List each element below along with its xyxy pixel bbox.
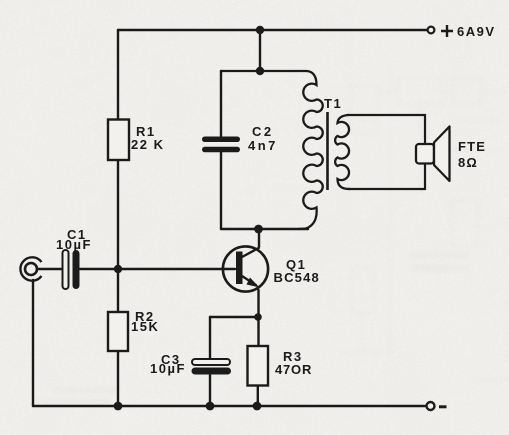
svg-text:47OR: 47OR: [275, 362, 312, 377]
node tank top junction: [256, 67, 264, 75]
wire secondary top to speaker: [347, 115, 425, 144]
capacitor C2: [202, 124, 278, 153]
wire ground bottom rail: [33, 405, 426, 407]
wire C3 branch lower: [209, 375, 211, 406]
capacitor C1: [56, 227, 92, 289]
svg-text:10µF: 10µF: [150, 361, 186, 376]
wire V+ dropdown to tank top: [259, 30, 261, 71]
svg-text:T1: T1: [324, 96, 342, 111]
transformer T1 core: [326, 112, 329, 190]
wire C1 to base: [80, 268, 235, 270]
svg-text:22 K: 22 K: [131, 137, 164, 152]
svg-text:BC548: BC548: [274, 270, 320, 285]
node R2 ground junction: [114, 402, 123, 411]
wire emitter junction to C3: [210, 316, 258, 318]
capacitor C3: [150, 352, 231, 376]
wire secondary bottom to speaker: [348, 164, 425, 189]
svg-text:C2: C2: [252, 124, 274, 139]
resistor R3: [248, 346, 313, 386]
resistor R1: [108, 120, 164, 161]
node R3 ground junction: [253, 402, 262, 411]
wire collector to tank bottom: [258, 229, 260, 247]
wire R3 bottom to ground: [257, 386, 259, 407]
node base junction: [114, 265, 122, 273]
transformer T1 secondary: [335, 115, 350, 189]
wire C2 branch upper: [220, 71, 222, 136]
terminal + V supply: [428, 24, 496, 39]
node collector tank junction: [254, 225, 263, 234]
wire top rail: [118, 29, 427, 31]
svg-text:15K: 15K: [131, 319, 159, 334]
wire R2 bottom to ground rail: [117, 351, 119, 406]
node V+ tank junction: [256, 26, 264, 34]
svg-text:10µF: 10µF: [56, 237, 92, 252]
resistor R2: [108, 309, 159, 351]
node C3 ground junction: [206, 402, 215, 411]
terminal - supply: [427, 402, 447, 410]
svg-text:8Ω: 8Ω: [458, 155, 478, 170]
wire tank bottom rail: [221, 228, 308, 230]
wire emitter down: [257, 290, 259, 346]
wire C2 branch lower: [220, 152, 222, 229]
input connector: [20, 257, 41, 280]
wire C3 branch upper: [209, 317, 211, 358]
wire left vertical V+ to R1: [117, 30, 119, 120]
wire base junction to R2 top: [117, 269, 119, 312]
wire input to C1: [37, 268, 62, 270]
wire input connector drop to ground: [32, 280, 34, 406]
svg-text:6A9V: 6A9V: [457, 24, 496, 39]
transistor Q1: [223, 246, 320, 291]
svg-text:FTE: FTE: [458, 139, 486, 154]
wire R1 bottom to base junction: [117, 160, 119, 269]
speaker FTE: [416, 127, 486, 182]
transformer T1 primary: [221, 71, 323, 229]
svg-text:4n7: 4n7: [248, 138, 278, 153]
node emitter C3 junction: [254, 313, 262, 321]
